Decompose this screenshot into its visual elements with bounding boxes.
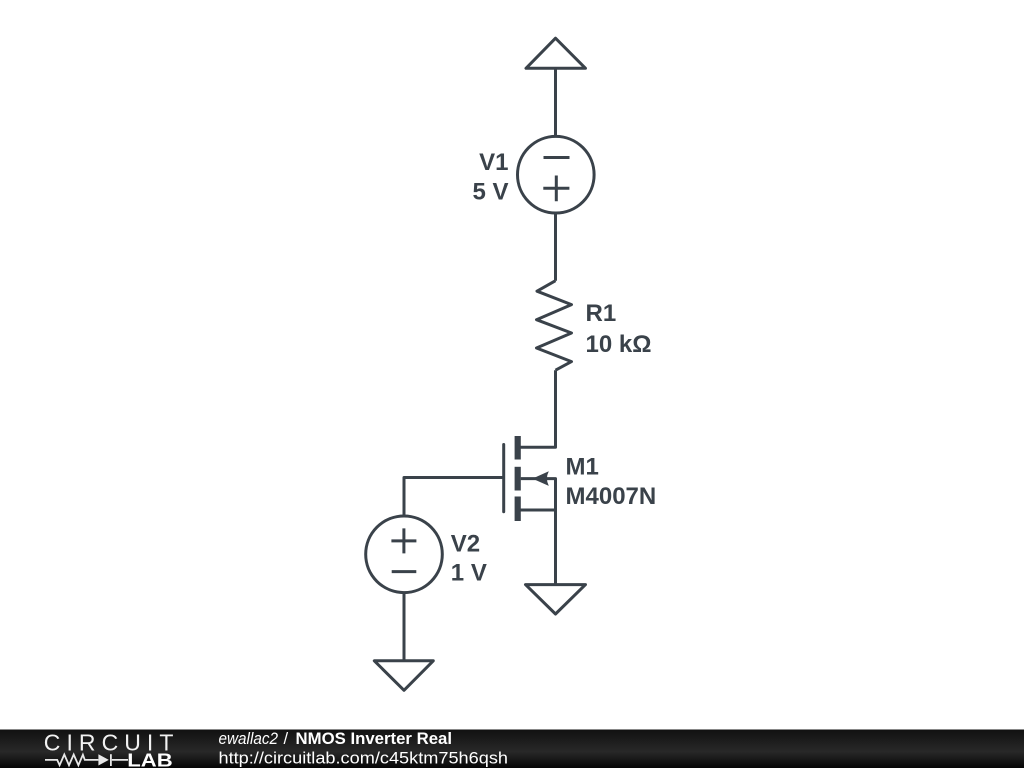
- svg-text:5 V: 5 V: [472, 179, 508, 206]
- svg-text:/: /: [284, 730, 289, 748]
- svg-text:NMOS Inverter Real: NMOS Inverter Real: [296, 730, 453, 748]
- svg-text:V2: V2: [451, 531, 480, 558]
- svg-text:V1: V1: [479, 149, 508, 176]
- svg-text:ewallac2: ewallac2: [219, 730, 279, 748]
- svg-text:10 kΩ: 10 kΩ: [586, 331, 652, 358]
- svg-text:M1: M1: [566, 454, 599, 481]
- svg-text:http://circuitlab.com/c45ktm75: http://circuitlab.com/c45ktm75h6qsh: [219, 750, 509, 768]
- svg-text:M4007N: M4007N: [566, 483, 657, 510]
- svg-text:R1: R1: [586, 300, 617, 327]
- svg-text:LAB: LAB: [127, 751, 172, 768]
- svg-text:1 V: 1 V: [451, 560, 487, 587]
